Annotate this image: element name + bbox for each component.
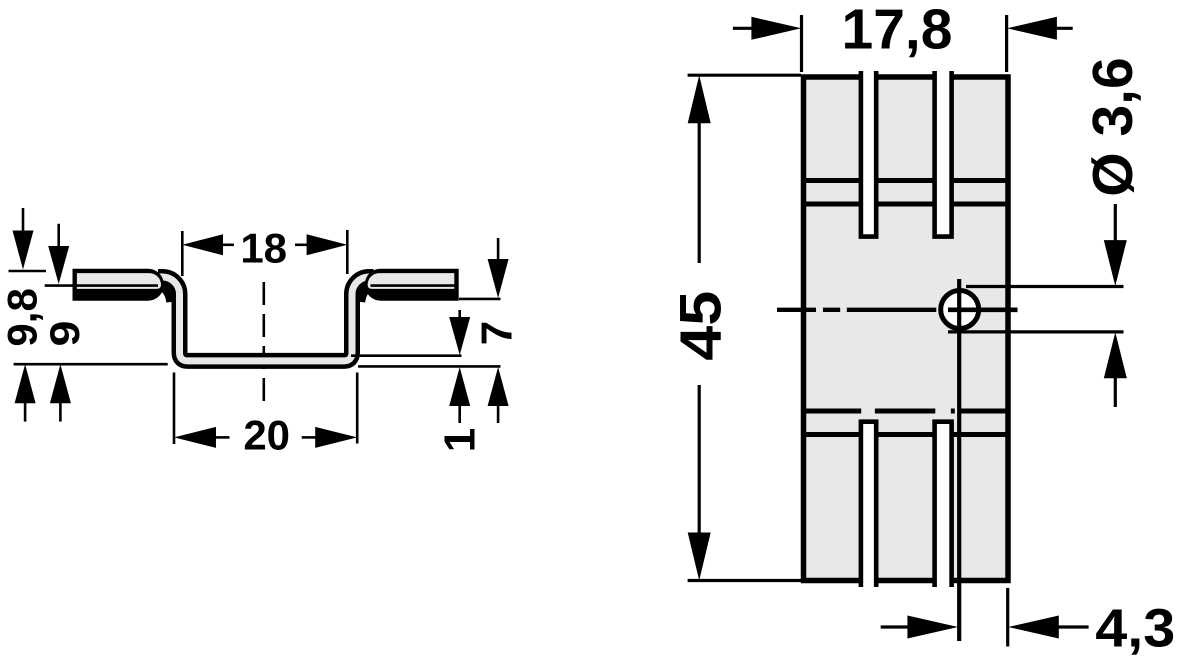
extension line 45 bottom (688, 579, 801, 582)
svg-text:4,3: 4,3 (1095, 599, 1175, 659)
dim arrow dia 3,6 down (1104, 204, 1127, 286)
dim arrow 9,8 up (15, 364, 36, 421)
dim arrow 4,3 left (881, 616, 958, 639)
lower groove line (801, 432, 1008, 437)
dim arrow 4,3 right (1008, 616, 1088, 639)
U-channel sheet core (158, 277, 374, 361)
extension line 18 right (346, 230, 349, 274)
extension line 20 left (173, 373, 176, 445)
extension line 9,8 top (9, 270, 47, 273)
centerline left view (262, 282, 265, 410)
dim arrow 17,8 left (733, 17, 801, 40)
dim arrow 1 up right (488, 367, 509, 423)
dim arrow 20 right (302, 427, 358, 448)
dim arrow 45 down (688, 533, 711, 581)
extension line tab bottom right (459, 298, 501, 301)
top slot 2 (935, 71, 952, 237)
top slot 1 (861, 71, 876, 237)
extension line 4,3 right (1006, 588, 1009, 647)
dim arrow 1 up left (449, 367, 470, 423)
svg-text:17,8: 17,8 (842, 0, 953, 61)
extension line 18 left (181, 231, 184, 276)
right tab top face (368, 273, 455, 289)
right tab fold line (371, 284, 457, 287)
extension line bottom-left (14, 363, 168, 366)
svg-text:7: 7 (473, 321, 522, 345)
dim arrow 7 bottom (449, 310, 470, 355)
horizontal centerline dash-dot (777, 308, 936, 312)
left tab top face (77, 273, 161, 289)
extension line hole top (966, 285, 1124, 288)
dim arrow 18 left (182, 234, 234, 255)
left tab outer (73, 269, 164, 301)
extension line 17,8 right (1005, 15, 1008, 72)
dim line 45 lower (698, 385, 701, 536)
extension line inner bottom right (351, 354, 462, 357)
extension line 45 top (688, 74, 801, 77)
fin groove line A (801, 178, 1008, 183)
dim arrow 9 up (50, 364, 71, 421)
bottom slot 1 (861, 422, 876, 587)
right bend fold fill (361, 286, 374, 303)
extension line 20 right (356, 373, 359, 444)
dim line 45 upper (698, 118, 701, 263)
left tab fold line / 9 extension (45, 284, 158, 287)
left bend fold fill (158, 286, 171, 303)
svg-text:9: 9 (41, 321, 88, 347)
dim arrow 9 down (48, 224, 69, 284)
dim arrow 7 top (488, 238, 509, 298)
U-channel sheet outline (158, 277, 374, 361)
dim arrow 45 up (688, 75, 711, 123)
hole horizontal crosshair (948, 307, 1018, 312)
right tab outer (365, 269, 459, 301)
fin groove line B (801, 202, 1008, 207)
extension line outer bottom right (358, 365, 501, 368)
svg-text:9,8: 9,8 (0, 288, 45, 346)
dim arrow 9,8 down (13, 208, 34, 270)
svg-text:1: 1 (436, 428, 485, 452)
dim arrow 17,8 right (1007, 17, 1073, 40)
extension line 17,8 left (800, 15, 803, 72)
hole vertical centerline (957, 279, 961, 641)
extension line hole bottom (948, 330, 1124, 333)
svg-text:45: 45 (668, 291, 733, 361)
hidden edge dashed line (806, 409, 1007, 414)
bottom slot 2 (935, 422, 952, 587)
svg-text:18: 18 (240, 225, 287, 272)
svg-text:Ø 3,6: Ø 3,6 (1081, 57, 1145, 196)
dim arrow 20 left (174, 427, 230, 448)
svg-text:20: 20 (243, 412, 290, 459)
dim arrow 18 right (295, 234, 347, 255)
mounting hole (941, 291, 979, 329)
heatsink body (804, 77, 1009, 581)
dim arrow dia 3,6 up (1104, 332, 1127, 407)
